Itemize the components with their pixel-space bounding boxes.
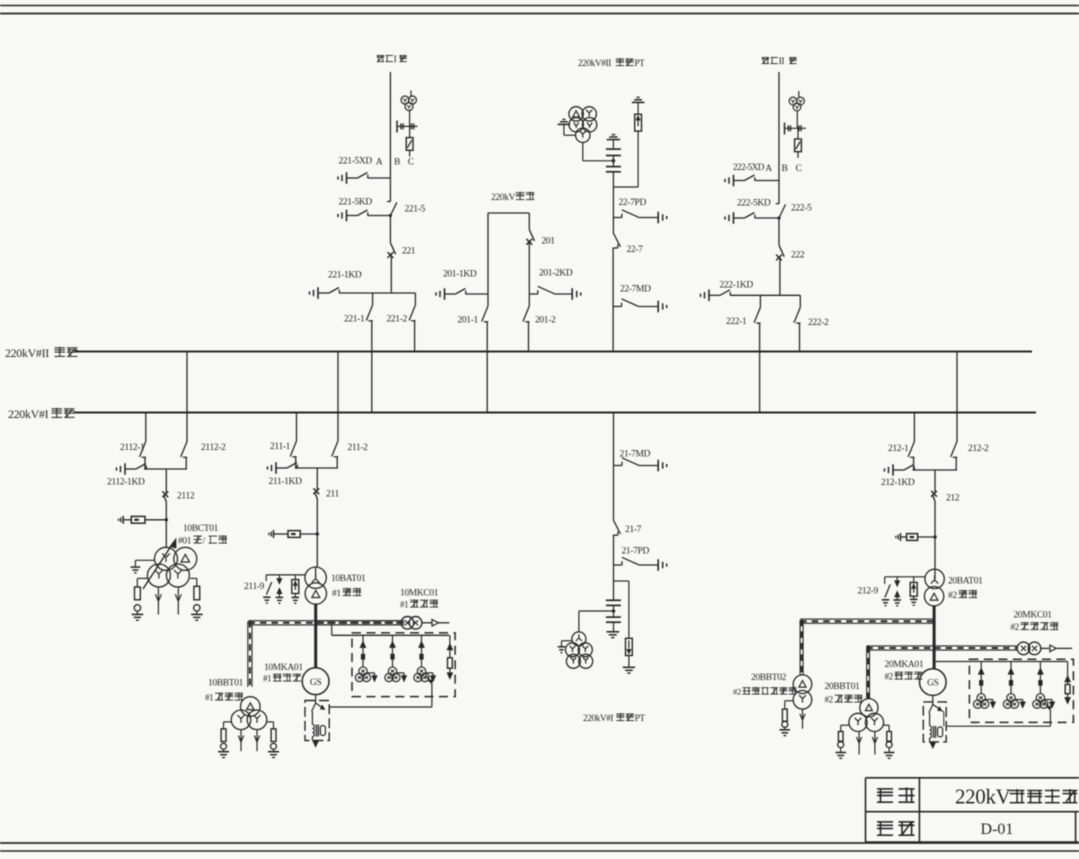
earthing switch 221-5KD bbox=[337, 214, 339, 217]
wire PT3 neutral link bbox=[1044, 701, 1049, 707]
earthing switch 21-7MD bbox=[614, 465, 623, 467]
wire IPB run to 20BBT02 bbox=[800, 618, 934, 620]
wire 10BCT01 LV feeder right bbox=[177, 587, 179, 615]
wire PT secondary arrow bbox=[1015, 699, 1023, 701]
arrow GS2 neutral to earth bbox=[932, 741, 934, 743]
earthing switch 212-1KD bbox=[884, 468, 886, 471]
wire IPB drop to 20BBT02 bbox=[799, 620, 801, 675]
generator-1 neutral grounding cubicle bbox=[305, 701, 329, 741]
PT branch with fuse bbox=[421, 635, 423, 641]
wire GS2 neutral PT link arrow bbox=[933, 704, 940, 709]
wire IPB to excitation transformer bbox=[422, 622, 432, 624]
svg-text:10MKC01: 10MKC01 bbox=[400, 589, 439, 599]
svg-text:222-5XD: 222-5XD bbox=[733, 162, 765, 172]
arrow GS1 neutral to earth bbox=[315, 741, 317, 742]
wire PT secondary arrow bbox=[426, 672, 433, 674]
disconnector 221-2 bbox=[414, 293, 416, 305]
wire 201-1 to bus I bbox=[486, 322, 488, 413]
svg-text:#1: #1 bbox=[263, 674, 271, 684]
svg-text:201-2: 201-2 bbox=[535, 316, 556, 326]
wire cap tap to PT bbox=[579, 610, 614, 612]
earthing switch 221-1KD bbox=[309, 291, 311, 294]
wire bay-221 joint bbox=[341, 292, 415, 294]
svg-text:201-2KD: 201-2KD bbox=[539, 269, 573, 279]
ground (inverted) above capacitor stack bbox=[607, 139, 620, 141]
svg-text:211-9: 211-9 bbox=[244, 582, 265, 592]
svg-text:222-1KD: 222-1KD bbox=[720, 281, 754, 291]
arrester 10BCT01 LV-right with counter bbox=[190, 577, 197, 579]
wire 21-7 column from bus I bbox=[613, 413, 615, 520]
arrester 10BBT01 left bbox=[224, 721, 232, 723]
ground below cap stack bbox=[606, 631, 619, 633]
wire 21-7 down bbox=[613, 535, 615, 600]
wire breaker 201 down bbox=[528, 242, 530, 294]
wire joint to breaker bbox=[165, 469, 167, 493]
ground bus-I PT bbox=[562, 640, 572, 642]
wire joint to breaker 211 bbox=[316, 468, 318, 490]
svg-text:221-1KD: 221-1KD bbox=[328, 271, 362, 281]
switch in GS1 neutral bbox=[312, 703, 316, 712]
wire breaker 212 down bbox=[934, 502, 936, 569]
arrester 211 neutral bbox=[294, 575, 296, 580]
svg-text:212-2: 212-2 bbox=[968, 444, 989, 454]
svg-text:222-1: 222-1 bbox=[726, 317, 747, 327]
breaker 2112 bbox=[162, 491, 168, 497]
arrester 20BBT01 right bbox=[884, 724, 890, 726]
arrester 10BCT01 LV-left with counter bbox=[137, 577, 147, 579]
wire 222-5 to breaker bbox=[778, 218, 780, 246]
node Yulong line II label bbox=[762, 57, 769, 59]
wire bay-212 joint bbox=[913, 469, 957, 471]
wire 20BAT01 to generator (IPB trunk) bbox=[933, 606, 936, 669]
earthing switch 222-5KD bbox=[724, 216, 726, 219]
tap changer arrow 10BCT01 bbox=[143, 542, 174, 589]
svg-text:#2: #2 bbox=[825, 695, 833, 705]
svg-text:20BAT01: 20BAT01 bbox=[948, 577, 983, 587]
transformer 20BAT01 bbox=[925, 569, 944, 588]
border frame top lines bbox=[0, 5, 1079, 7]
breaker 201 bbox=[530, 230, 535, 241]
svg-text:2112-2: 2112-2 bbox=[201, 443, 226, 453]
dashed enclosure generator-1 PT cubicle bbox=[352, 633, 455, 697]
breaker 211 bbox=[313, 488, 319, 494]
bus 220kV#II bbox=[75, 351, 1033, 353]
svg-text:A: A bbox=[765, 164, 772, 174]
wire 10BAT01 to generator (IPB trunk) bbox=[314, 604, 317, 668]
PT 220kV#II bus (5-winding cluster) bbox=[569, 107, 583, 121]
svg-text:10BAT01: 10BAT01 bbox=[331, 574, 366, 584]
svg-text:221: 221 bbox=[402, 247, 416, 257]
svg-text:221-5KD: 221-5KD bbox=[339, 198, 373, 208]
spark gap 211 neutral bbox=[278, 575, 280, 579]
wire 221-2 to bus II bbox=[414, 321, 416, 352]
transformer 20MKC01 excitation bbox=[1017, 642, 1030, 655]
svg-text:22-7PD: 22-7PD bbox=[619, 198, 647, 208]
earthing switch 211-1KD bbox=[267, 466, 269, 469]
svg-text:212-1: 212-1 bbox=[888, 444, 909, 454]
arrester generator-1 (4th branch) bbox=[449, 635, 451, 644]
ground for bus-II PT bbox=[558, 123, 571, 125]
disconnector 221-5 bbox=[387, 201, 391, 203]
earthing switch 21-7PD bbox=[614, 564, 623, 566]
arrester line-II bbox=[797, 128, 799, 139]
svg-text:B: B bbox=[782, 164, 788, 174]
wire line-II incoming bbox=[778, 72, 780, 204]
svg-text:212: 212 bbox=[946, 494, 960, 504]
disconnector 212-2 bbox=[956, 352, 958, 442]
title block frame bbox=[866, 777, 1079, 779]
svg-text:220kV#I: 220kV#I bbox=[8, 407, 49, 421]
svg-text:C: C bbox=[408, 158, 414, 168]
earthing switch 221-5XD bbox=[337, 176, 339, 179]
wire GS2 neutral to PT cubicle bbox=[946, 725, 1050, 727]
CT bay 2112 bbox=[118, 519, 120, 521]
wire cap stack down to switches bbox=[612, 172, 614, 233]
svg-text:21-7PD: 21-7PD bbox=[622, 547, 650, 557]
capacitor line-II coupling bbox=[784, 127, 806, 129]
transformer 10BCT01 (4-winding) bbox=[155, 547, 178, 570]
svg-text:220kV#II: 220kV#II bbox=[5, 346, 49, 360]
svg-text:II: II bbox=[779, 57, 785, 67]
wire generator-2 PT feed bbox=[934, 661, 1068, 663]
svg-text:222: 222 bbox=[791, 251, 805, 261]
svg-text:GS: GS bbox=[310, 678, 322, 688]
wire breaker 2112 down bbox=[165, 502, 167, 547]
svg-text:10BCT01: 10BCT01 bbox=[183, 524, 219, 534]
PT branch with fuse bbox=[1010, 662, 1012, 669]
wire bay-2112 joint bbox=[144, 468, 187, 470]
wire PT secondary arrow bbox=[1045, 699, 1053, 701]
disconnector 21-7 bbox=[613, 520, 620, 534]
svg-text:I: I bbox=[394, 55, 397, 65]
wire IPB drop to 10BBT01 bbox=[247, 621, 249, 687]
svg-text:22-7: 22-7 bbox=[627, 245, 644, 255]
disconnector 222-2 bbox=[799, 295, 801, 307]
disconnector 2112-2 bbox=[186, 352, 188, 442]
PT branch with fuse bbox=[1039, 662, 1041, 669]
switch in GS2 neutral bbox=[929, 704, 933, 713]
wire 10BBT01 LV feeders bbox=[240, 730, 242, 752]
wire 211-9 neutral bus bbox=[266, 574, 305, 576]
capacitor divider stack bus-I PT bbox=[606, 599, 621, 601]
wire bay-222 joint bbox=[731, 294, 800, 296]
wire line-I incoming bbox=[389, 72, 391, 202]
PT branch with fuse bbox=[980, 662, 982, 669]
wire arrester branch to column bbox=[613, 186, 638, 188]
svg-text:#1: #1 bbox=[332, 589, 341, 599]
wire PT secondary arrow bbox=[397, 672, 404, 674]
earthing switch 222-1KD bbox=[700, 294, 702, 297]
svg-text:2112-1KD: 2112-1KD bbox=[107, 478, 145, 488]
svg-text:221-5: 221-5 bbox=[405, 205, 426, 215]
svg-text:22-7MD: 22-7MD bbox=[620, 285, 651, 295]
earthing switch 22-7PD bbox=[613, 217, 622, 219]
disconnector 222-5 bbox=[776, 203, 780, 205]
wire breaker 211 down bbox=[316, 499, 318, 567]
wire 222-2 to bus II bbox=[799, 323, 801, 351]
svg-text:#2: #2 bbox=[885, 672, 893, 682]
wire bay-211 joint bbox=[295, 467, 338, 469]
svg-text:220kV: 220kV bbox=[955, 785, 1011, 809]
generator-2 neutral grounding cubicle bbox=[923, 702, 946, 742]
wire PT secondary arrow bbox=[985, 699, 993, 701]
wire 20BBT01 LV feeders bbox=[858, 732, 860, 755]
disconnector 201-2 bbox=[528, 294, 530, 306]
svg-text:B: B bbox=[394, 158, 400, 168]
wire PT3 neutral link bbox=[425, 675, 430, 682]
earthing switch 201-1KD bbox=[435, 292, 437, 295]
wire 212-9 neutral bus bbox=[885, 576, 925, 578]
disconnector 201-1 bbox=[487, 294, 489, 306]
title label drawing-number bbox=[877, 821, 893, 823]
disconnector 212-9 (neutral earthing) bbox=[884, 577, 886, 584]
svg-text:GS: GS bbox=[927, 679, 939, 689]
arrester 20BBT01 left bbox=[841, 724, 849, 726]
grounding transformer GS1 bbox=[312, 725, 314, 737]
svg-text:#2: #2 bbox=[948, 591, 957, 601]
wire bus-tie top bbox=[488, 212, 529, 214]
wire excitation line right bbox=[934, 645, 1017, 647]
border frame bottom lines bbox=[0, 842, 1079, 844]
wire isolated-phase bus unit 1 bbox=[249, 620, 405, 622]
wire 20BBT02 LV feeder bbox=[802, 709, 804, 729]
wire 221-1 to bus I bbox=[371, 321, 373, 413]
earthing switch 2112-1KD bbox=[116, 467, 118, 470]
earthing switch 22-7MD bbox=[613, 306, 622, 308]
svg-text:211-2: 211-2 bbox=[348, 443, 369, 453]
wire IPB run-2 to 20BBT01 and excitation bbox=[867, 645, 935, 647]
svg-text:#2: #2 bbox=[733, 687, 741, 697]
PT branch with fuse bbox=[362, 635, 364, 641]
svg-text:221-2: 221-2 bbox=[387, 315, 408, 325]
PT branch with fuse bbox=[392, 635, 394, 641]
grounding transformer GS2 bbox=[930, 726, 932, 738]
wire breaker 222 to joint bbox=[779, 258, 781, 296]
svg-text:#1: #1 bbox=[205, 693, 213, 703]
wire PT secondary arrow bbox=[367, 672, 374, 674]
svg-text:2112: 2112 bbox=[177, 492, 195, 502]
svg-text:20BBT02: 20BBT02 bbox=[751, 673, 787, 683]
PT line-I (CVT voltage transformer) bbox=[410, 91, 412, 97]
arrester line-I bbox=[409, 126, 411, 137]
spark gap 212 neutral bbox=[896, 577, 898, 581]
svg-text:211: 211 bbox=[326, 490, 339, 500]
transformer 10BAT01 bbox=[305, 567, 326, 588]
capacitor divider stack bbox=[612, 140, 614, 150]
svg-text:20MKC01: 20MKC01 bbox=[1014, 611, 1053, 621]
title label drawing-name bbox=[877, 788, 893, 790]
svg-text:2112-1: 2112-1 bbox=[120, 443, 145, 453]
wire GS1 neutral PT link arrow bbox=[316, 703, 323, 708]
disconnector 211-1 bbox=[296, 413, 298, 442]
svg-text:21-7: 21-7 bbox=[625, 525, 642, 535]
wire excitation output arrow bbox=[1041, 647, 1049, 649]
arrester generator-2 (4th branch) bbox=[1067, 662, 1069, 676]
disconnector 221-1 bbox=[372, 293, 374, 305]
wire 10BCT01 LV feeder left bbox=[157, 587, 159, 615]
disconnector 22-7 bbox=[613, 233, 620, 247]
ground 10BCT01 HV neutral bbox=[135, 559, 154, 561]
svg-text:#1: #1 bbox=[400, 600, 408, 610]
arrester 20BBT02 with counter bbox=[785, 700, 794, 702]
svg-text:220kV#II: 220kV#II bbox=[578, 58, 611, 68]
svg-text:20MKA01: 20MKA01 bbox=[885, 660, 924, 670]
svg-text:212-9: 212-9 bbox=[858, 587, 879, 597]
svg-text:D-01: D-01 bbox=[981, 821, 1014, 838]
svg-text:#01: #01 bbox=[178, 537, 192, 547]
svg-text:201: 201 bbox=[542, 237, 556, 247]
svg-text:221-5XD: 221-5XD bbox=[339, 157, 373, 167]
wire excitation output arrow bbox=[432, 620, 439, 627]
wire joint to breaker 212 bbox=[934, 470, 936, 492]
svg-text:222-2: 222-2 bbox=[808, 318, 829, 328]
wire breaker 221 to joint bbox=[390, 255, 392, 293]
disconnector 211-9 (neutral earthing) bbox=[265, 575, 267, 581]
earthing switch 201-2KD bbox=[529, 293, 538, 295]
svg-text:211-1KD: 211-1KD bbox=[269, 477, 303, 487]
svg-text:A: A bbox=[376, 158, 383, 168]
breaker 221 bbox=[391, 243, 396, 254]
CT bay 212 bbox=[895, 536, 897, 538]
wire 22-7 down bbox=[612, 248, 614, 352]
wire 201-2 to bus II bbox=[528, 322, 530, 352]
dashed enclosure generator-2 PT cubicle bbox=[969, 659, 1073, 722]
svg-text:C: C bbox=[796, 164, 802, 174]
generator GS2 bbox=[920, 669, 947, 696]
arrester bus-I PT branch bbox=[628, 581, 630, 638]
svg-text:212-1KD: 212-1KD bbox=[881, 478, 915, 488]
svg-text:10MKA01: 10MKA01 bbox=[264, 663, 303, 673]
svg-text:PT: PT bbox=[635, 713, 646, 723]
wire GS1 neutral to PT cubicle bbox=[329, 706, 432, 708]
svg-text:222-5KD: 222-5KD bbox=[737, 199, 771, 209]
svg-text:221-1: 221-1 bbox=[344, 315, 365, 325]
transformer 20BBT01 (split winding) bbox=[860, 699, 878, 717]
disconnector 211-2 bbox=[337, 352, 339, 442]
wire PT to cap stack bbox=[582, 142, 584, 160]
breaker 212 bbox=[931, 491, 937, 497]
svg-text:220kV#I: 220kV#I bbox=[583, 713, 614, 723]
svg-text:10BBT01: 10BBT01 bbox=[208, 679, 244, 689]
arrester 10BBT01 right bbox=[266, 721, 274, 723]
disconnector 2112-1 bbox=[145, 413, 147, 442]
generator GS1 bbox=[302, 668, 329, 695]
wire 221-5 to breaker bbox=[389, 216, 391, 244]
svg-text:#2: #2 bbox=[1011, 622, 1019, 632]
wire 222-1 to bus I bbox=[759, 323, 761, 412]
svg-text:20BBT01: 20BBT01 bbox=[825, 682, 861, 692]
transformer 20BBT02 bbox=[793, 675, 812, 694]
disconnector 212-1 bbox=[913, 413, 915, 442]
capacitor line-I coupling bbox=[397, 125, 418, 127]
svg-text:PT: PT bbox=[634, 58, 645, 68]
wire generator PT feed tap bbox=[331, 624, 333, 635]
PT 220kV#I bus (5-winding cluster) bbox=[572, 632, 586, 646]
breaker 222 bbox=[779, 246, 784, 257]
svg-text:211-1: 211-1 bbox=[270, 442, 291, 452]
wire to arrester branch bbox=[614, 580, 629, 582]
svg-text:222-5: 222-5 bbox=[791, 204, 812, 214]
svg-text:201-1KD: 201-1KD bbox=[443, 270, 477, 280]
wire IPB drop to 20BBT01 bbox=[866, 646, 868, 698]
earthing switch 222-5XD bbox=[724, 179, 726, 182]
svg-text:220kV: 220kV bbox=[491, 193, 516, 203]
transformer 10BBT01 (split winding) bbox=[241, 697, 261, 717]
arrester 212 neutral bbox=[913, 577, 915, 583]
bus 220kV#I bbox=[74, 412, 1036, 414]
disconnector 222-1 bbox=[759, 295, 761, 307]
CT bay 211 bbox=[268, 533, 270, 535]
transformer 10MKC01 excitation bbox=[401, 617, 414, 630]
PT line-II (CVT voltage transformer) bbox=[798, 91, 800, 97]
svg-text:21-7MD: 21-7MD bbox=[620, 450, 651, 460]
arrester bus-II PT branch bbox=[632, 101, 645, 103]
node Yulong line I label bbox=[377, 55, 384, 57]
svg-text:201-1: 201-1 bbox=[458, 316, 479, 326]
